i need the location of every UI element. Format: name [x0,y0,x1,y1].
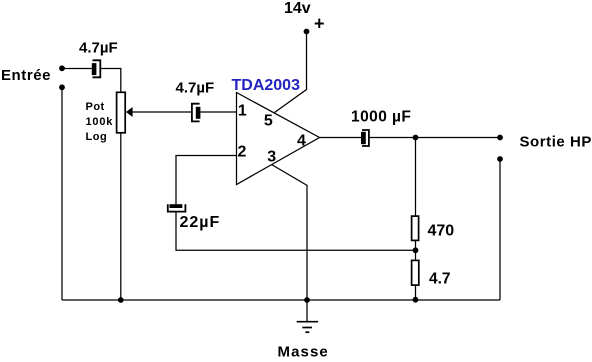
ground Masse symbol [297,300,318,332]
wire R2 bottom to ground rail [415,285,417,300]
svg-text:TDA2003: TDA2003 [232,77,301,94]
wire input terminal to C1 [62,68,92,70]
svg-text:4.7µF: 4.7µF [176,79,215,96]
op-amp U1 TDA2003 triangle [237,93,320,185]
node 14v supply terminal [304,29,310,35]
svg-text:100k: 100k [86,116,114,128]
node output ground terminal [497,156,503,162]
capacitor 4.7µF input coupling: symbol [92,60,101,77]
resistor 470: body [412,216,419,240]
wire input ground terminal down to ground rail [61,87,63,300]
wire op-amp output to C4 [320,137,362,139]
svg-text:Masse: Masse [278,344,329,361]
wire pin 5 to 14v supply [275,32,307,113]
wire output node down to R1 [415,138,417,217]
svg-text:4: 4 [297,133,306,150]
svg-text:+: + [314,14,325,34]
svg-text:Log: Log [86,131,108,143]
svg-text:4.7µF: 4.7µF [79,39,118,56]
svg-text:3: 3 [267,149,276,166]
resistor 4.7: body [412,260,419,285]
wire C3 bottom to feedback node [176,212,416,251]
node potentiometer ground junction [118,297,124,303]
node ground symbol junction [304,297,310,303]
wire op-amp pin 2 to C3 top [176,156,237,205]
capacitor 1000 µF: symbol [361,130,369,146]
potentiometer label Pot 100k Log [86,101,114,143]
node input ground terminal [59,84,65,90]
svg-text:4.7: 4.7 [429,271,451,288]
svg-text:5: 5 [264,113,273,130]
node feedback junction [413,247,419,253]
wire R1 to feedback node [415,240,417,260]
wire pin 3 to ground rail [272,165,308,301]
potentiometer Pot 100k Log: body [117,92,126,133]
svg-text:470: 470 [428,223,455,240]
svg-text:Pot: Pot [86,101,105,113]
potentiometer wiper arrow [126,107,133,117]
capacitor 4.7µF to pin 1: symbol [192,104,201,122]
wire C1 to potentiometer top [100,69,121,93]
wire C2 to op-amp pin 1 [200,111,236,113]
svg-text:2: 2 [238,144,247,161]
wire ground rail [62,299,500,301]
node output terminal Sortie HP [497,135,503,141]
capacitor 22µF: symbol [168,204,186,211]
svg-text:22µF: 22µF [180,214,221,231]
wire wiper to C2 [132,111,192,113]
node R2 ground junction [413,297,419,303]
svg-text:Entrée: Entrée [1,67,51,84]
wire potentiometer bottom to ground rail [120,133,122,300]
node input signal terminal [59,65,65,71]
node output junction to feedback [413,135,419,141]
svg-text:1: 1 [238,103,247,120]
wire output ground terminal down and to ground rail [499,159,501,300]
wire C4 to output terminal [369,137,500,139]
svg-text:Sortie HP: Sortie HP [520,134,592,151]
svg-text:1000 µF: 1000 µF [351,109,411,126]
svg-text:14v: 14v [284,0,311,17]
